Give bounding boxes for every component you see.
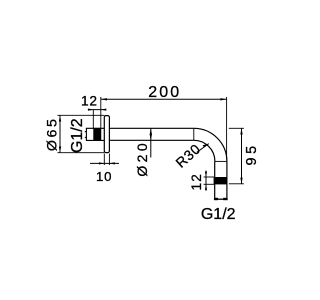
dimension 95: line [241, 128, 243, 184]
tube/elbow joint line [193, 128, 195, 140]
dimension 200: left extension line [100, 97, 102, 140]
svg-text:R30: R30 [172, 140, 203, 170]
svg-text:G1/2: G1/2 [201, 206, 236, 223]
dimension R30: arrow [203, 144, 209, 148]
vertical drop tube left edge [214, 161, 216, 199]
dimension 200: right extension line [226, 97, 228, 160]
dimension 10: left arrow [99, 162, 104, 164]
dimension 95: top extension line [229, 127, 244, 129]
dimension 10: right extension line [108, 154, 110, 166]
dimension 95: bottom extension line [229, 183, 244, 185]
dimension 95: top arrow [240, 128, 242, 134]
dimension 12 (outlet thread): bottom arrow [205, 184, 207, 189]
dimension 10: left extension line [103, 154, 105, 166]
elbow/drop joint line [215, 160, 227, 162]
svg-text:95: 95 [244, 142, 260, 165]
nipple end tick upper [85, 131, 87, 133]
horizontal tube top edge [109, 127, 193, 129]
elbow inner arc [194, 140, 215, 161]
svg-text:10: 10 [96, 169, 112, 184]
dimension 12 (outlet thread): line [205, 171, 207, 191]
nipple thread (black) [93, 128, 101, 141]
dimension 12 (outlet thread): top arrow [205, 172, 207, 177]
dimension 12 (wall thread): line [88, 109, 106, 111]
wall plate (escutcheon), side view [104, 116, 109, 153]
horizontal tube bottom edge [109, 139, 193, 141]
vertical drop tube right edge [226, 161, 228, 199]
dimension Ø65: line [59, 115, 61, 152]
elbow outer arc [194, 128, 227, 161]
dimension 12 (outlet thread): bottom extension line [204, 183, 215, 185]
outlet thread band (black) [214, 177, 228, 184]
outlet bottom edge [214, 198, 228, 200]
dimension 95: bottom arrow [240, 178, 242, 184]
dimension 10: line [90, 162, 119, 164]
dimension 200: right arrow [220, 98, 226, 100]
dimension Ø65: top arrow [59, 115, 61, 121]
dimension 12 (wall thread): left arrow [88, 109, 93, 111]
dimension 200: line [101, 98, 227, 100]
svg-text:12: 12 [189, 173, 204, 191]
dimension 12 (wall thread): right arrow [101, 109, 106, 111]
svg-text:Ø20: Ø20 [134, 140, 150, 177]
dimension R30: leader line [197, 144, 209, 153]
nipple end tick lower [85, 136, 87, 138]
dimension 10: right arrow [109, 162, 114, 164]
dimension 12 (wall thread): left extension line [92, 110, 94, 129]
svg-text:Ø65: Ø65 [44, 116, 60, 151]
wall nipple outline [86, 128, 104, 140]
svg-text:G1/2: G1/2 [69, 118, 86, 153]
dimension 200: left arrow [101, 98, 107, 100]
svg-text:12: 12 [81, 94, 98, 109]
dimension Ø20: line [150, 128, 152, 157]
dimension Ø20: top arrow [150, 128, 152, 134]
outlet bottom corner tick right [223, 198, 227, 200]
dimension Ø20: bottom arrow [150, 134, 152, 140]
outlet bottom corner tick left [214, 198, 218, 200]
dimension Ø65: top extension line [57, 114, 104, 116]
dimension Ø65: bottom arrow [59, 147, 61, 153]
svg-text:200: 200 [148, 84, 181, 101]
dimension Ø65: bottom extension line [57, 152, 104, 154]
dimension 12 (outlet thread): top extension line [204, 176, 215, 178]
